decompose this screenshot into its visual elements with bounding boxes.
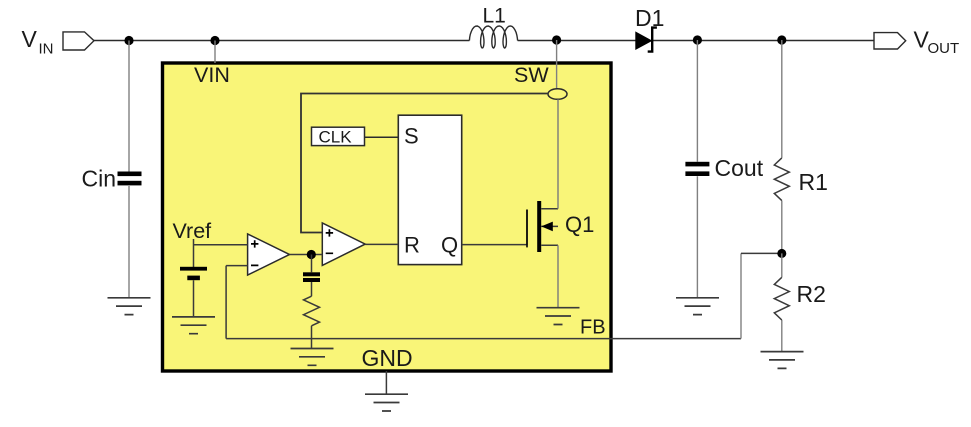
ground R2 bbox=[761, 352, 804, 369]
transistor Q1 NMOS bbox=[537, 201, 541, 252]
op-amp U4 PWM comparator bbox=[322, 223, 365, 266]
resistor comp bbox=[304, 296, 320, 326]
svg-text:GND: GND bbox=[362, 345, 413, 371]
svg-text:Q1: Q1 bbox=[565, 212, 594, 237]
svg-text:SW: SW bbox=[514, 63, 549, 87]
svg-text:R1: R1 bbox=[799, 169, 828, 195]
node Cout junction bbox=[693, 35, 702, 44]
ground GND pin bbox=[365, 394, 408, 411]
ground comp bbox=[291, 349, 334, 366]
op-amp U3 error amplifier bbox=[248, 234, 290, 275]
svg-text:Vref: Vref bbox=[173, 219, 212, 243]
pin SW ellipse bbox=[548, 89, 567, 100]
wire top rail VIN to VOUT bbox=[94, 40, 874, 42]
wire CLK to S bbox=[365, 136, 399, 138]
wire Q1 source to ground bbox=[557, 245, 559, 307]
wire R1 branch bbox=[781, 40, 783, 253]
ground Vref bbox=[172, 317, 215, 334]
capacitor Cin bbox=[118, 172, 142, 177]
svg-text:Q: Q bbox=[441, 233, 458, 258]
wire R2 branch bbox=[781, 253, 783, 351]
diode D1 (schottky) bbox=[636, 32, 652, 49]
terminal VOUT bbox=[874, 33, 906, 49]
node compensation junction bbox=[307, 250, 316, 259]
wire Cin branch bbox=[128, 41, 130, 298]
capacitor Cout bbox=[685, 162, 709, 167]
svg-text:L1: L1 bbox=[483, 5, 506, 28]
wire comp resistor to ground bbox=[311, 326, 313, 349]
svg-text:D1: D1 bbox=[635, 5, 664, 31]
ground Cout bbox=[676, 298, 719, 315]
capacitor comp bbox=[303, 272, 320, 276]
wire GND pin stub bbox=[385, 371, 387, 394]
svg-text:S: S bbox=[404, 123, 419, 148]
wire SW pin stub bbox=[556, 40, 558, 89]
wire battery to ground bbox=[193, 280, 195, 317]
wire VIN pin stub bbox=[214, 41, 216, 64]
battery Vref bbox=[180, 267, 207, 271]
svg-text:Cout: Cout bbox=[715, 155, 764, 181]
svg-text:OUT: OUT bbox=[928, 40, 960, 57]
svg-text:R: R bbox=[404, 233, 420, 258]
wire Q1 drain to SW ellipse bbox=[557, 99, 559, 208]
inductor L1 bbox=[469, 26, 517, 48]
CLK block bbox=[312, 127, 365, 145]
resistor R2 bbox=[774, 277, 789, 320]
svg-text:V: V bbox=[22, 26, 38, 52]
node VIN-Cin junction bbox=[124, 36, 133, 45]
node FB divider junction bbox=[777, 249, 786, 258]
wire Cout branch bbox=[696, 40, 698, 298]
wire op-amp output to comparator minus bbox=[290, 254, 323, 256]
wire FB to op-amp minus bbox=[226, 266, 248, 339]
svg-text:R2: R2 bbox=[797, 281, 826, 307]
wire current-sense from SW pin to comparator bbox=[301, 94, 548, 233]
svg-text:IN: IN bbox=[39, 41, 54, 58]
wire comparator output to R bbox=[365, 243, 398, 245]
wire Vref to op-amp plus bbox=[194, 239, 248, 267]
node VIN-pin junction bbox=[210, 36, 219, 45]
svg-text:CLK: CLK bbox=[319, 128, 353, 147]
wire Q output to gate bbox=[462, 210, 527, 245]
svg-text:Cin: Cin bbox=[82, 166, 117, 192]
ground Cin bbox=[108, 298, 151, 315]
IC U1 body (yellow box) bbox=[163, 63, 612, 371]
terminal VIN bbox=[63, 32, 94, 50]
node R1 top junction bbox=[777, 35, 786, 44]
ground Q1 bbox=[537, 308, 580, 325]
svg-text:FB: FB bbox=[580, 317, 606, 339]
resistor R1 bbox=[774, 158, 789, 201]
wire FB line inside box to divider bbox=[226, 338, 741, 340]
SR latch U2 bbox=[398, 115, 461, 264]
wire junction to comp cap bbox=[311, 255, 313, 297]
svg-text:VIN: VIN bbox=[194, 63, 230, 87]
node SW junction bbox=[552, 35, 561, 44]
